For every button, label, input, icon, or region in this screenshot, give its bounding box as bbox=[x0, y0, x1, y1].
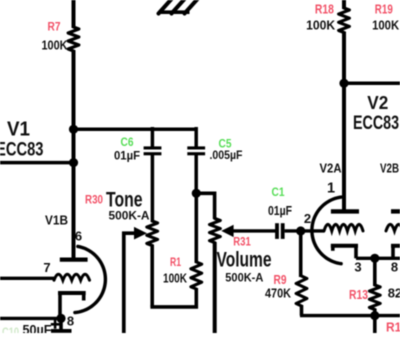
svg-text:C6: C6 bbox=[121, 135, 134, 149]
svg-text:1: 1 bbox=[327, 181, 335, 197]
svg-text:V2: V2 bbox=[367, 93, 388, 113]
svg-text:R14: R14 bbox=[386, 321, 400, 334]
svg-text:ECC83: ECC83 bbox=[0, 140, 44, 161]
svg-text:ECC83: ECC83 bbox=[353, 113, 399, 134]
svg-text:7: 7 bbox=[43, 260, 50, 275]
svg-text:R1: R1 bbox=[170, 255, 181, 269]
svg-text:2: 2 bbox=[304, 211, 311, 226]
svg-text:V2B: V2B bbox=[380, 162, 399, 176]
svg-text:R31: R31 bbox=[233, 235, 251, 249]
svg-text:3: 3 bbox=[354, 259, 361, 274]
svg-text:100K: 100K bbox=[372, 18, 400, 33]
svg-text:50µF: 50µF bbox=[23, 323, 52, 334]
svg-text:6: 6 bbox=[75, 229, 82, 244]
svg-text:8: 8 bbox=[391, 259, 398, 274]
svg-text:C1: C1 bbox=[272, 185, 285, 199]
svg-text:01µF: 01µF bbox=[114, 148, 140, 162]
svg-text:R18: R18 bbox=[315, 1, 334, 16]
svg-text:470K: 470K bbox=[265, 286, 292, 301]
svg-text:R19: R19 bbox=[375, 1, 393, 16]
svg-text:100K: 100K bbox=[163, 271, 187, 286]
svg-text:100K: 100K bbox=[42, 38, 69, 53]
svg-text:V1: V1 bbox=[7, 119, 30, 141]
svg-text:.005µF: .005µF bbox=[210, 148, 243, 162]
svg-text:R7: R7 bbox=[48, 20, 61, 34]
svg-text:01µF: 01µF bbox=[268, 204, 292, 218]
svg-text:8: 8 bbox=[67, 314, 74, 329]
svg-text:500K-A: 500K-A bbox=[225, 271, 263, 285]
svg-text:R13: R13 bbox=[349, 288, 368, 302]
svg-text:Volume: Volume bbox=[217, 249, 272, 272]
svg-text:R30: R30 bbox=[85, 193, 103, 207]
svg-text:820: 820 bbox=[388, 286, 400, 301]
svg-text:V2A: V2A bbox=[320, 161, 342, 175]
svg-text:100K: 100K bbox=[306, 18, 336, 33]
svg-text:C10: C10 bbox=[2, 325, 19, 333]
svg-text:V1B: V1B bbox=[45, 214, 68, 228]
svg-text:500K-A: 500K-A bbox=[109, 209, 150, 223]
